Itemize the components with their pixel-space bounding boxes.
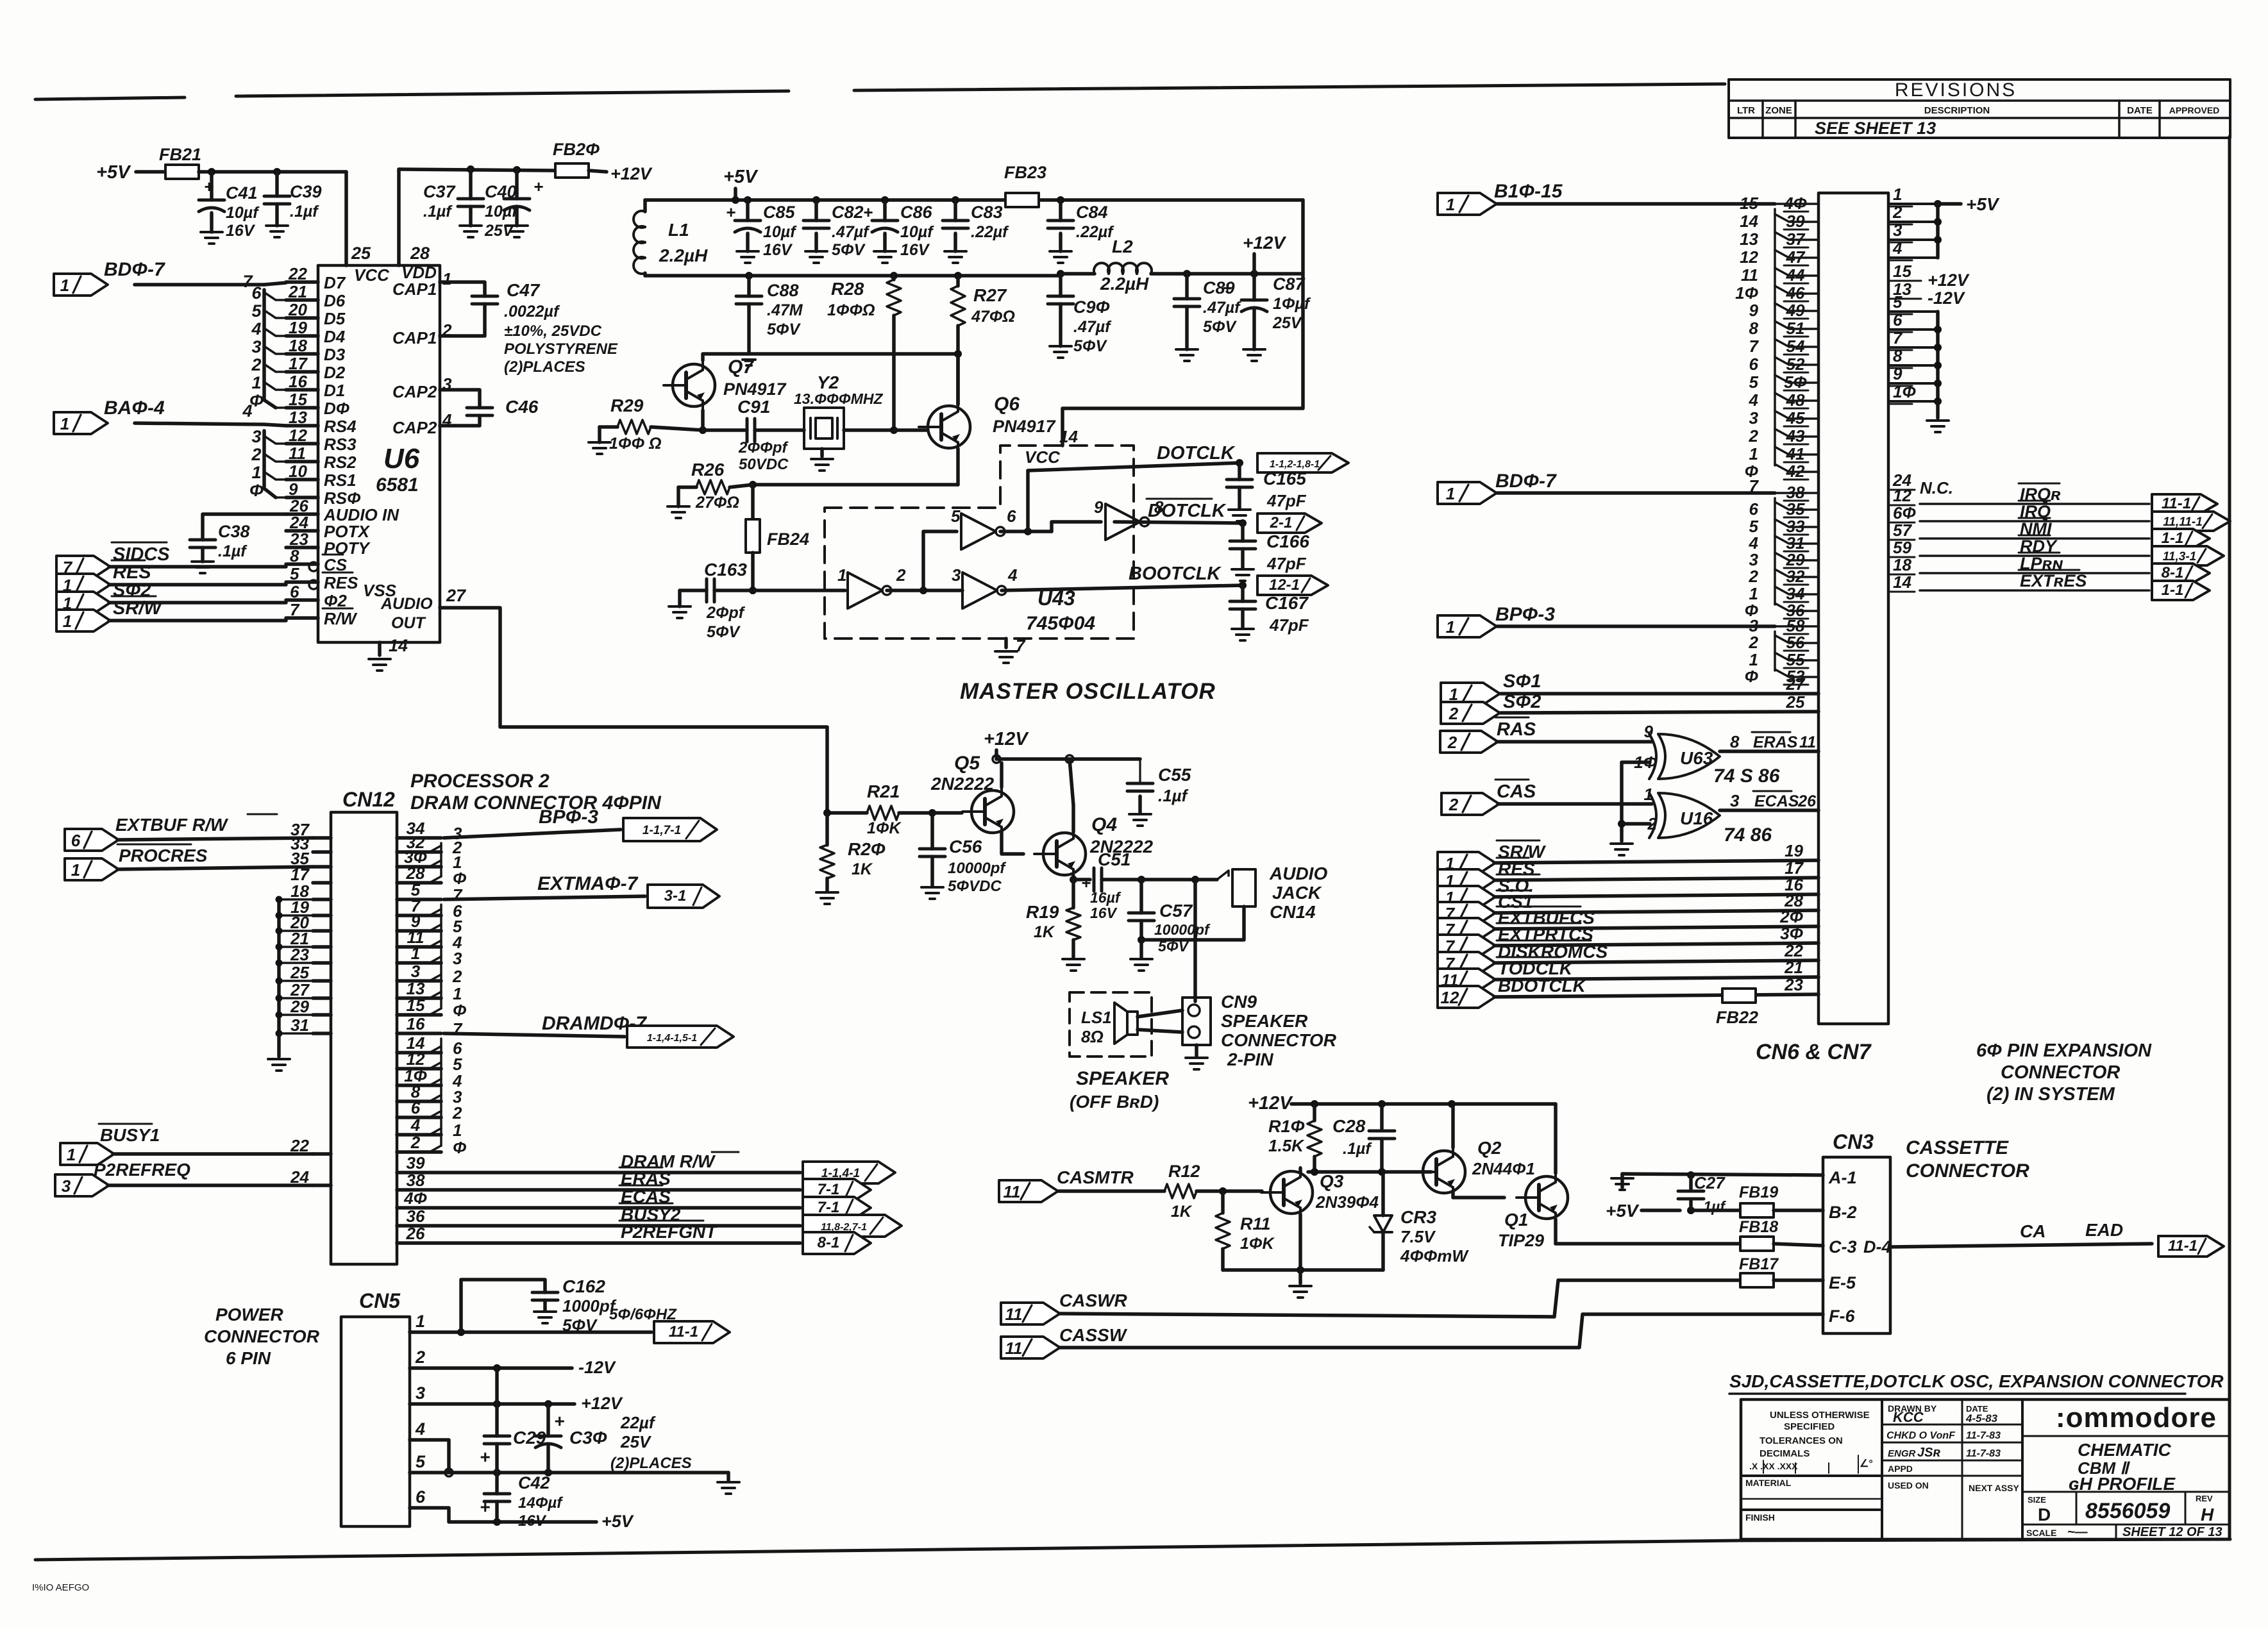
svg-text:12: 12 (1740, 247, 1758, 267)
svg-text:SΦ2: SΦ2 (1503, 692, 1541, 712)
svg-text:25: 25 (351, 244, 371, 263)
svg-text:25: 25 (290, 963, 309, 982)
svg-text:1: 1 (1446, 617, 1455, 637)
svg-text:15: 15 (407, 996, 425, 1015)
svg-text:.47µf: .47µf (1073, 318, 1112, 336)
svg-text:Q1: Q1 (1504, 1210, 1528, 1230)
svg-text:3: 3 (1749, 408, 1759, 428)
svg-text:+: + (554, 1411, 564, 1431)
svg-text:2: 2 (251, 445, 261, 464)
svg-text:ERAS: ERAS (1753, 733, 1798, 751)
svg-text:RS1: RS1 (324, 471, 357, 490)
svg-text:R2Φ: R2Φ (848, 839, 886, 859)
svg-text:59: 59 (1893, 538, 1911, 557)
svg-text:1: 1 (1644, 785, 1653, 804)
svg-text:2Φpf: 2Φpf (706, 604, 746, 622)
svg-text:C86: C86 (900, 203, 933, 222)
svg-text:10000pf: 10000pf (1154, 921, 1211, 938)
svg-text:2: 2 (1749, 633, 1759, 652)
svg-text:BUSY1: BUSY1 (100, 1125, 160, 1145)
svg-text:RS3: RS3 (324, 435, 357, 454)
svg-text:1K: 1K (852, 860, 873, 878)
svg-text:APPROVED: APPROVED (2169, 105, 2220, 115)
svg-text:5: 5 (951, 506, 961, 526)
svg-text:R27: R27 (973, 285, 1007, 305)
svg-text:2: 2 (452, 967, 462, 986)
svg-text:±10%, 25VDC: ±10%, 25VDC (504, 322, 602, 340)
svg-text:+: + (1081, 873, 1091, 892)
svg-text:Φ: Φ (453, 1001, 466, 1020)
svg-text:.22µf: .22µf (971, 223, 1009, 241)
svg-text:1000pf: 1000pf (562, 1296, 617, 1316)
svg-text:6: 6 (1749, 355, 1759, 374)
svg-text:2: 2 (410, 1133, 421, 1152)
svg-text:CN9: CN9 (1221, 992, 1257, 1012)
svg-text:C56: C56 (949, 837, 982, 856)
svg-text:1: 1 (251, 373, 261, 392)
svg-text:BDΦ-7: BDΦ-7 (104, 259, 165, 280)
svg-text:7: 7 (290, 600, 300, 619)
svg-text:16V: 16V (900, 241, 930, 259)
svg-text:+5V: +5V (723, 167, 759, 187)
svg-text:+: + (204, 177, 214, 196)
svg-text:.1µf: .1µf (1343, 1140, 1372, 1158)
svg-text:.47M: .47M (767, 301, 803, 319)
svg-text:R28: R28 (831, 279, 864, 299)
svg-text:4: 4 (1007, 565, 1018, 585)
svg-text:Y2: Y2 (817, 372, 839, 392)
svg-text:D4: D4 (324, 327, 346, 346)
svg-text:FB22: FB22 (1716, 1008, 1758, 1027)
svg-text:SJD,CASSETTE,DOTCLK OSC, EXPAN: SJD,CASSETTE,DOTCLK OSC, EXPANSION CONNE… (1729, 1371, 2224, 1391)
svg-text:1: 1 (1446, 484, 1455, 503)
svg-text:CAP1: CAP1 (392, 280, 437, 299)
svg-text:DOTCLK: DOTCLK (1148, 501, 1227, 521)
svg-text:C27: C27 (1694, 1173, 1726, 1192)
svg-text:BPΦ-3: BPΦ-3 (539, 806, 598, 828)
svg-text:35: 35 (1786, 499, 1805, 519)
svg-text:R1Φ: R1Φ (1268, 1117, 1305, 1136)
svg-text:CAS: CAS (1497, 781, 1536, 802)
svg-text:1ΦΦ Ω: 1ΦΦ Ω (609, 435, 661, 453)
svg-text:19: 19 (1785, 841, 1803, 860)
svg-text:2: 2 (1749, 426, 1759, 446)
svg-text:2-1: 2-1 (1270, 514, 1293, 531)
svg-text:D2: D2 (324, 363, 346, 382)
svg-text:P2REFGNT: P2REFGNT (621, 1222, 718, 1242)
svg-text:Q5: Q5 (954, 753, 980, 774)
svg-text:SΦ1: SΦ1 (1503, 671, 1541, 692)
svg-text:27: 27 (446, 586, 467, 605)
svg-text:1K: 1K (1034, 923, 1055, 941)
svg-text:C84: C84 (1076, 203, 1108, 222)
svg-text:CAP2: CAP2 (392, 382, 437, 401)
svg-text:EXTʀES: EXTʀES (2020, 571, 2087, 590)
svg-text:5ΦV: 5ΦV (832, 241, 866, 259)
svg-text:47ΦΩ: 47ΦΩ (971, 308, 1015, 326)
svg-text:1: 1 (60, 414, 69, 433)
svg-text:2: 2 (1449, 795, 1459, 814)
svg-text:11,3-1: 11,3-1 (2163, 550, 2196, 564)
svg-text:C28: C28 (1332, 1116, 1366, 1136)
svg-text:8: 8 (290, 546, 299, 565)
svg-text:OUT: OUT (391, 614, 427, 632)
svg-text:+: + (533, 177, 543, 196)
svg-text:FB19: FB19 (1739, 1183, 1778, 1201)
svg-text:4-5-83: 4-5-83 (1965, 1412, 1998, 1424)
svg-text:R12: R12 (1168, 1162, 1200, 1181)
svg-text:25V: 25V (620, 1432, 652, 1451)
svg-text:CASSETTE: CASSETTE (1906, 1137, 2009, 1158)
svg-text:+12V: +12V (1243, 233, 1286, 253)
svg-text:16V: 16V (1090, 905, 1118, 921)
svg-text:CHEMATIC: CHEMATIC (2078, 1440, 2171, 1460)
svg-text:U16: U16 (1680, 808, 1713, 828)
svg-text:21: 21 (1784, 958, 1803, 977)
svg-text:1: 1 (416, 1312, 425, 1331)
svg-text:RS2: RS2 (324, 453, 357, 472)
svg-text:EXTMAΦ-7: EXTMAΦ-7 (537, 873, 639, 894)
svg-text:3: 3 (1730, 791, 1740, 810)
svg-text:RES: RES (324, 573, 358, 592)
svg-text:LTR: LTR (1737, 105, 1755, 116)
svg-text:1: 1 (60, 276, 69, 295)
svg-text:CASWR: CASWR (1059, 1291, 1128, 1310)
svg-text:C162: C162 (562, 1276, 605, 1296)
svg-text:15: 15 (1740, 194, 1758, 213)
svg-text:27: 27 (1786, 674, 1806, 694)
svg-text:C163: C163 (704, 560, 747, 580)
svg-text:12-1: 12-1 (1269, 576, 1300, 594)
svg-text:8-1: 8-1 (818, 1234, 840, 1251)
svg-text:7-1: 7-1 (818, 1181, 840, 1198)
svg-text:3: 3 (251, 337, 261, 356)
svg-text:6: 6 (411, 1098, 421, 1117)
svg-text:C38: C38 (218, 522, 250, 541)
svg-text:C167: C167 (1265, 593, 1309, 613)
svg-text:1ΦK: 1ΦK (867, 819, 902, 837)
svg-text:+: + (863, 203, 873, 222)
svg-text:14: 14 (1740, 212, 1758, 231)
svg-text:4: 4 (242, 401, 252, 421)
svg-text:R26: R26 (691, 460, 725, 480)
svg-text:8-1: 8-1 (2162, 564, 2184, 581)
svg-text:C47: C47 (507, 280, 541, 300)
svg-text:R29: R29 (610, 396, 644, 415)
svg-text:+5V: +5V (96, 162, 131, 183)
svg-text:11: 11 (1005, 1339, 1023, 1358)
svg-text:6: 6 (416, 1487, 426, 1507)
svg-text:2: 2 (452, 1103, 462, 1123)
svg-text:32: 32 (1786, 567, 1805, 586)
svg-text:ENGR: ENGR (1888, 1448, 1916, 1459)
svg-text:5ΦVDC: 5ΦVDC (948, 878, 1002, 895)
svg-text:SEE SHEET 13: SEE SHEET 13 (1815, 119, 1936, 138)
svg-text:27ΦΩ: 27ΦΩ (695, 494, 739, 512)
svg-text:11-7-83: 11-7-83 (1966, 1448, 2001, 1459)
svg-text:7: 7 (1749, 476, 1760, 496)
svg-text:PN4917: PN4917 (993, 417, 1057, 436)
svg-text:5: 5 (290, 564, 299, 583)
svg-text:+12V: +12V (610, 164, 653, 183)
svg-text:BOOTCLK: BOOTCLK (1129, 564, 1222, 584)
svg-text:1: 1 (1893, 185, 1902, 204)
svg-text:6Φ PIN EXPANSION: 6Φ PIN EXPANSION (1976, 1040, 2152, 1061)
svg-text:C55: C55 (1158, 765, 1191, 785)
svg-text:2N44Φ1: 2N44Φ1 (1472, 1159, 1535, 1178)
svg-text:Φ: Φ (453, 1138, 466, 1157)
svg-text:14Φµf: 14Φµf (518, 1494, 563, 1512)
svg-text:L1: L1 (668, 220, 689, 240)
svg-text:C82: C82 (832, 203, 864, 222)
svg-text:25V: 25V (1272, 314, 1303, 332)
svg-text:SCALE: SCALE (2026, 1528, 2056, 1538)
svg-text:15: 15 (1893, 262, 1911, 281)
svg-text:C57: C57 (1159, 901, 1193, 921)
svg-text:FINISH: FINISH (1745, 1512, 1775, 1523)
svg-text:Q7: Q7 (728, 356, 754, 378)
svg-text:+: + (480, 1497, 490, 1517)
svg-text:(2) IN SYSTEM: (2) IN SYSTEM (1987, 1084, 2115, 1105)
svg-text:10µf: 10µf (763, 223, 797, 241)
svg-text:74 S 86: 74 S 86 (1713, 765, 1780, 787)
svg-text:1: 1 (67, 1145, 76, 1164)
svg-text:50VDC: 50VDC (739, 456, 789, 473)
svg-text:(2)PLACES: (2)PLACES (504, 358, 585, 376)
svg-text:DRAM CONNECTOR 4ΦPIN: DRAM CONNECTOR 4ΦPIN (410, 792, 662, 814)
svg-text:2N39Φ4: 2N39Φ4 (1315, 1192, 1379, 1212)
svg-text:.1µf: .1µf (218, 542, 248, 560)
svg-text:1ΦΦΩ: 1ΦΦΩ (827, 301, 875, 319)
svg-text:5ΦV: 5ΦV (1073, 337, 1107, 355)
svg-text:1: 1 (71, 860, 80, 880)
svg-text:CAP2: CAP2 (392, 418, 437, 437)
svg-text:FB24: FB24 (767, 530, 809, 549)
svg-text:SHEET 12 OF 13: SHEET 12 OF 13 (2122, 1525, 2222, 1539)
svg-text:U63: U63 (1680, 748, 1713, 768)
svg-text:I%IO AEFGO: I%IO AEFGO (32, 1582, 89, 1593)
svg-text:74 86: 74 86 (1724, 824, 1772, 846)
svg-text:DESCRIPTION: DESCRIPTION (1924, 105, 1990, 116)
svg-text:CONNECTOR: CONNECTOR (204, 1326, 320, 1346)
svg-text:FB17: FB17 (1739, 1255, 1779, 1273)
svg-text:1.5K: 1.5K (1268, 1136, 1305, 1155)
svg-text:SPECIFIED: SPECIFIED (1784, 1421, 1835, 1432)
svg-text:C85: C85 (763, 203, 796, 222)
svg-text:1ΦK: 1ΦK (1240, 1235, 1275, 1253)
svg-text:2: 2 (415, 1348, 425, 1367)
svg-text:ZONE: ZONE (1765, 105, 1792, 116)
svg-text:10µf: 10µf (485, 203, 519, 221)
svg-text:.22µf: .22µf (1076, 223, 1114, 241)
svg-text:+12V: +12V (1928, 271, 1970, 290)
svg-text:8Ω: 8Ω (1081, 1027, 1104, 1046)
svg-text:C166: C166 (1266, 531, 1309, 551)
svg-text:1-1,4-1,5-1: 1-1,4-1,5-1 (647, 1033, 697, 1044)
svg-text:2: 2 (896, 565, 906, 585)
svg-text:3: 3 (411, 962, 421, 981)
svg-text:RAS: RAS (1497, 719, 1536, 740)
svg-text:11: 11 (1799, 733, 1816, 751)
svg-text:11-7-83: 11-7-83 (1966, 1430, 2001, 1441)
svg-text:11-1: 11-1 (669, 1323, 698, 1341)
svg-text:4: 4 (1749, 390, 1759, 410)
svg-text:5: 5 (251, 301, 262, 321)
svg-text:CONNECTOR: CONNECTOR (1221, 1030, 1337, 1050)
svg-text:7: 7 (242, 272, 253, 291)
svg-text:C165: C165 (1263, 469, 1306, 489)
svg-text:CAP1: CAP1 (392, 328, 437, 347)
svg-text:D3: D3 (324, 345, 346, 364)
svg-text:CN12: CN12 (342, 788, 395, 811)
svg-text:Q6: Q6 (994, 394, 1020, 415)
svg-text:E-5: E-5 (1829, 1273, 1856, 1292)
svg-text:16V: 16V (763, 241, 793, 259)
svg-text:18: 18 (1893, 555, 1911, 574)
svg-text:16V: 16V (518, 1512, 547, 1530)
svg-text:10000pf: 10000pf (948, 860, 1006, 877)
svg-text:3: 3 (453, 949, 462, 968)
svg-text:47pF: 47pF (1269, 615, 1309, 635)
svg-text:TOLERANCES ON: TOLERANCES ON (1760, 1435, 1843, 1446)
svg-text:∠°: ∠° (1860, 1458, 1873, 1469)
svg-text:BDOTCLK: BDOTCLK (1498, 976, 1587, 996)
svg-text:-12V: -12V (578, 1358, 616, 1377)
svg-text:POWER: POWER (215, 1305, 284, 1324)
svg-text:38: 38 (407, 1171, 425, 1190)
svg-text:Φ: Φ (249, 481, 264, 500)
svg-text:7: 7 (1749, 337, 1760, 356)
svg-text:MASTER OSCILLATOR: MASTER OSCILLATOR (960, 679, 1216, 704)
svg-text:7-1: 7-1 (818, 1199, 840, 1216)
svg-text:3Φ: 3Φ (1780, 924, 1803, 943)
svg-text:4: 4 (251, 319, 261, 338)
svg-text:5ΦV: 5ΦV (1203, 318, 1237, 336)
svg-text:4: 4 (410, 1115, 421, 1135)
svg-text:28: 28 (410, 244, 430, 263)
svg-text:.47µf: .47µf (1203, 299, 1241, 317)
svg-text:11-1: 11-1 (2168, 1237, 2197, 1255)
svg-text:PROCESSOR 2: PROCESSOR 2 (410, 771, 550, 792)
svg-text:Q4: Q4 (1091, 814, 1117, 835)
svg-text:CONNECTOR: CONNECTOR (2001, 1062, 2120, 1083)
svg-text:EAD: EAD (2085, 1220, 2123, 1240)
svg-text:4ΦΦmW: 4ΦΦmW (1400, 1246, 1469, 1266)
svg-text:C37: C37 (423, 182, 457, 201)
svg-text:3: 3 (416, 1383, 425, 1403)
svg-text:21: 21 (288, 282, 307, 301)
svg-text:DECIMALS: DECIMALS (1760, 1448, 1810, 1459)
svg-text:1: 1 (251, 463, 261, 482)
svg-text:EXTBUF R/W: EXTBUF R/W (115, 815, 229, 835)
svg-text:~—: ~— (2067, 1525, 2088, 1539)
svg-text:10: 10 (289, 462, 307, 481)
svg-text:6Φ: 6Φ (1893, 503, 1916, 522)
svg-text:CHKD O VonF: CHKD O VonF (1886, 1430, 1956, 1441)
svg-text:11-1: 11-1 (2162, 495, 2191, 512)
svg-text:6: 6 (71, 831, 81, 850)
svg-text:1-1: 1-1 (2162, 581, 2184, 599)
svg-text:6: 6 (1749, 499, 1759, 519)
svg-text:2: 2 (1447, 733, 1457, 752)
svg-text:8556059: 8556059 (2085, 1499, 2170, 1523)
svg-text:1K: 1K (1171, 1203, 1193, 1221)
svg-text:7.5V: 7.5V (1400, 1227, 1436, 1246)
svg-text:C87: C87 (1273, 274, 1306, 294)
svg-text:3: 3 (62, 1176, 71, 1196)
svg-text:.47µf: .47µf (832, 223, 870, 241)
svg-text:5ΦV: 5ΦV (767, 321, 801, 338)
svg-text:UNLESS OTHERWISE: UNLESS OTHERWISE (1770, 1410, 1870, 1421)
svg-text:25: 25 (1786, 692, 1805, 712)
svg-text:CN5: CN5 (359, 1289, 401, 1312)
svg-text:11: 11 (289, 444, 306, 463)
svg-text:AUDIO: AUDIO (380, 595, 433, 613)
svg-text:APPD: APPD (1888, 1464, 1913, 1474)
svg-text:KCC: KCC (1893, 1409, 1924, 1425)
svg-text:13: 13 (1740, 230, 1758, 249)
svg-text:36: 36 (407, 1207, 425, 1226)
svg-text:57: 57 (1893, 521, 1912, 540)
svg-text:8: 8 (1730, 732, 1740, 751)
svg-text:N.C.: N.C. (1920, 478, 1953, 497)
svg-text:12: 12 (1893, 486, 1911, 505)
svg-text:ECAS: ECAS (1754, 792, 1799, 810)
svg-text:9: 9 (1749, 301, 1759, 320)
svg-text:Q2: Q2 (1477, 1138, 1502, 1158)
svg-text:C42: C42 (518, 1473, 550, 1492)
svg-text:PROCRES: PROCRES (119, 846, 208, 865)
svg-text:REV: REV (2196, 1494, 2213, 1503)
svg-text:C91: C91 (737, 397, 770, 417)
svg-text:BAΦ-4: BAΦ-4 (104, 397, 165, 419)
svg-text:L2: L2 (1112, 237, 1133, 256)
svg-text:C9Φ: C9Φ (1073, 297, 1110, 317)
svg-text:CN14: CN14 (1270, 902, 1316, 922)
svg-text:MATERIAL: MATERIAL (1745, 1478, 1792, 1488)
svg-text:1: 1 (1446, 195, 1455, 214)
svg-text:P2REFREQ: P2REFREQ (94, 1160, 190, 1180)
svg-text:+12V: +12V (1248, 1093, 1293, 1114)
svg-text:TIP29: TIP29 (1498, 1231, 1544, 1250)
svg-text:JSʀ: JSʀ (1917, 1446, 1940, 1460)
svg-text:1: 1 (837, 565, 846, 585)
svg-text:22: 22 (288, 264, 307, 283)
svg-text:C-3: C-3 (1829, 1237, 1857, 1257)
svg-text:VCC: VCC (354, 265, 390, 285)
svg-text:H: H (2201, 1505, 2214, 1525)
svg-text:R11: R11 (1240, 1214, 1271, 1233)
svg-text:CN6 & CN7: CN6 & CN7 (1756, 1040, 1872, 1064)
svg-text:14: 14 (1893, 572, 1911, 592)
svg-text:BPΦ-3: BPΦ-3 (1495, 604, 1555, 625)
svg-text:DOTCLK: DOTCLK (1157, 443, 1236, 464)
svg-text:17: 17 (289, 354, 308, 373)
svg-text:CASSW: CASSW (1059, 1325, 1128, 1345)
svg-text:20: 20 (288, 300, 307, 319)
svg-text:16V: 16V (226, 222, 256, 240)
svg-text:4Φ: 4Φ (403, 1189, 427, 1208)
svg-text:29: 29 (290, 997, 309, 1016)
svg-text:.1µf: .1µf (1158, 786, 1189, 805)
svg-text:C40: C40 (485, 182, 517, 201)
svg-text:C41: C41 (226, 183, 258, 203)
svg-text:16: 16 (407, 1014, 425, 1033)
svg-text:11,11-1: 11,11-1 (2163, 515, 2203, 529)
svg-text:16µf: 16µf (1090, 889, 1121, 906)
svg-text:1-1: 1-1 (2162, 530, 2184, 547)
svg-text:F-6: F-6 (1829, 1307, 1855, 1326)
